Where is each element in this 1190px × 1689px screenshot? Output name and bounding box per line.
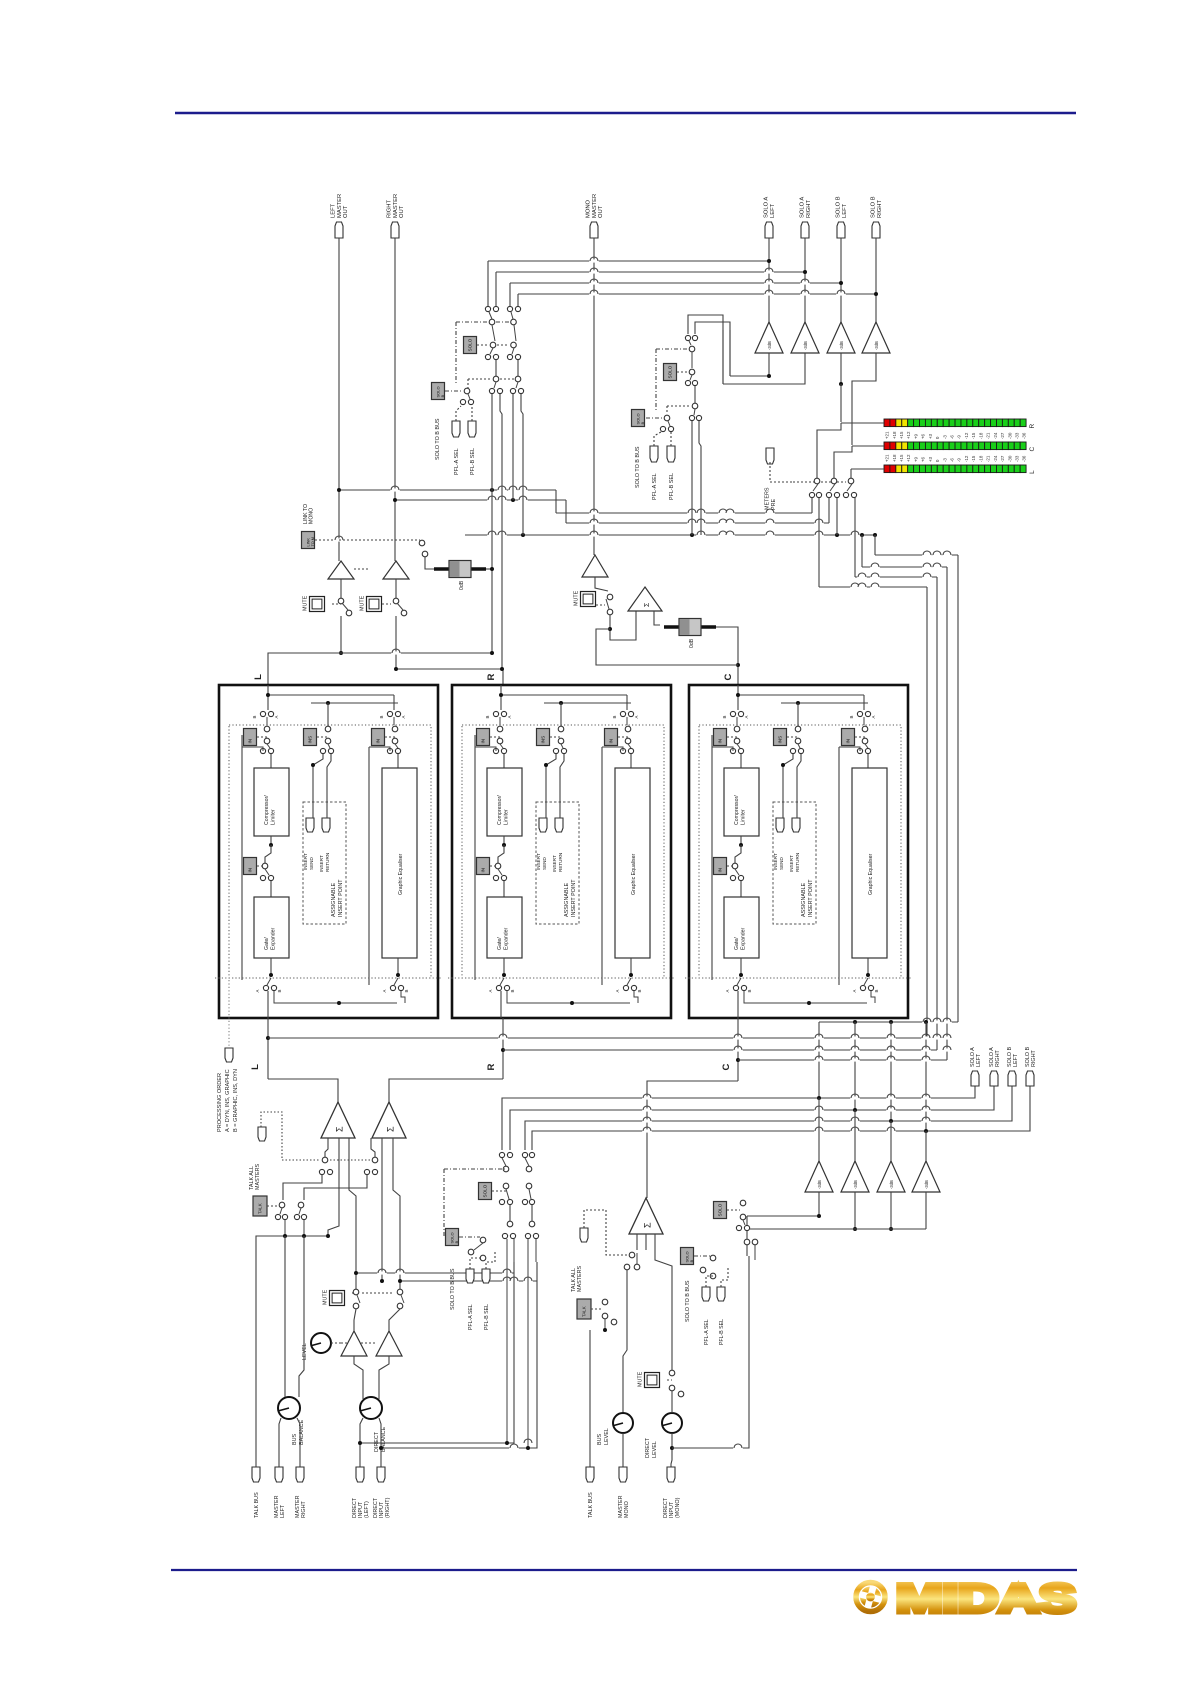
svg-text:-9: -9 <box>957 458 962 462</box>
svg-text:SOLO B: SOLO B <box>836 196 842 218</box>
svg-text:RIGHT: RIGHT <box>806 200 812 218</box>
svg-text:RIGHT: RIGHT <box>387 200 393 218</box>
svg-text:RETURN: RETURN <box>558 853 563 872</box>
svg-text:MUTE: MUTE <box>360 595 366 611</box>
svg-text:PFL-A SEL: PFL-A SEL <box>468 1304 474 1330</box>
svg-text:-6: -6 <box>950 458 955 462</box>
svg-text:A: A <box>744 715 749 718</box>
svg-text:INS: INS <box>308 736 313 744</box>
svg-text:PFL-A SEL: PFL-A SEL <box>454 448 460 475</box>
svg-text:SOLO: SOLO <box>668 365 673 378</box>
svg-text:BUS: BUS <box>597 1434 603 1445</box>
svg-text:LEFT: LEFT <box>331 203 337 218</box>
svg-text:A: A <box>382 989 387 992</box>
svg-text:LEVEL: LEVEL <box>604 1428 610 1445</box>
svg-text:MUTE: MUTE <box>303 595 309 611</box>
svg-text:-12: -12 <box>964 455 969 462</box>
svg-text:SEND: SEND <box>542 857 547 870</box>
svg-text:A: A <box>255 989 260 992</box>
svg-text:Graphic Equaliser: Graphic Equaliser <box>398 853 404 895</box>
svg-text:INSERT POINT: INSERT POINT <box>571 879 577 917</box>
svg-text:SEND: SEND <box>309 857 314 870</box>
svg-text:L: L <box>1029 470 1036 474</box>
svg-text:PFL-A SEL: PFL-A SEL <box>704 1319 710 1345</box>
svg-text:-3dB: -3dB <box>767 341 772 350</box>
svg-text:INSERT: INSERT <box>552 855 557 872</box>
svg-text:Gate/: Gate/ <box>264 937 270 950</box>
svg-text:MUTE: MUTE <box>323 1289 329 1305</box>
svg-text:Expander: Expander <box>741 928 747 950</box>
svg-text:Gate/: Gate/ <box>734 937 740 950</box>
svg-text:-3dB: -3dB <box>839 341 844 350</box>
svg-text:-36: -36 <box>1022 432 1027 439</box>
svg-text:IN: IN <box>481 739 486 744</box>
svg-text:A: A <box>507 715 512 718</box>
svg-text:RETURN: RETURN <box>795 853 800 872</box>
svg-text:INSERT: INSERT <box>773 853 778 870</box>
svg-text:-3dB: -3dB <box>924 1180 929 1189</box>
svg-text:-27: -27 <box>1000 455 1005 462</box>
svg-text:MIDAS: MIDAS <box>896 1577 1076 1621</box>
svg-text:A: A <box>871 715 876 718</box>
svg-text:-18: -18 <box>978 455 983 462</box>
svg-text:INSERT POINT: INSERT POINT <box>808 879 814 917</box>
svg-text:+12: +12 <box>906 454 911 462</box>
svg-text:LEVEL: LEVEL <box>302 1343 308 1360</box>
svg-text:B: B <box>747 989 752 992</box>
svg-text:B: B <box>637 989 642 992</box>
svg-text:A: A <box>852 989 857 992</box>
svg-text:RIGHT: RIGHT <box>301 1501 307 1518</box>
svg-text:-12: -12 <box>964 432 969 439</box>
svg-text:-3dB: -3dB <box>853 1180 858 1189</box>
svg-text:SOLO TO B BUS: SOLO TO B BUS <box>635 446 641 488</box>
svg-text:ASSIGNABLE: ASSIGNABLE <box>564 882 570 917</box>
svg-text:Limiter: Limiter <box>504 809 510 825</box>
svg-text:A: A <box>725 989 730 992</box>
svg-text:Compressor/: Compressor/ <box>497 795 503 825</box>
svg-text:-24: -24 <box>993 455 998 462</box>
svg-text:OUT: OUT <box>598 205 604 218</box>
svg-text:SOLO: SOLO <box>468 338 473 351</box>
svg-text:+3: +3 <box>928 433 933 439</box>
svg-text:A = DYN, INS, GRAPHIC: A = DYN, INS, GRAPHIC <box>225 1069 231 1132</box>
svg-text:+12: +12 <box>906 431 911 439</box>
svg-text:+18: +18 <box>892 431 897 439</box>
svg-text:OUT: OUT <box>399 205 405 218</box>
svg-text:MONO: MONO <box>624 1501 630 1518</box>
svg-text:R: R <box>486 673 497 680</box>
svg-text:INSERT POINT: INSERT POINT <box>338 879 344 917</box>
svg-text:A: A <box>634 715 639 718</box>
svg-text:RIGHT: RIGHT <box>1031 1050 1037 1067</box>
svg-text:INSERT: INSERT <box>789 855 794 872</box>
svg-text:MASTER: MASTER <box>592 194 598 218</box>
svg-text:+6: +6 <box>921 433 926 439</box>
svg-text:METERS: METERS <box>765 487 771 510</box>
svg-text:Limiter: Limiter <box>741 809 747 825</box>
svg-text:Graphic Equaliser: Graphic Equaliser <box>631 853 637 895</box>
svg-text:TALK: TALK <box>258 1203 263 1214</box>
svg-text:-27: -27 <box>1000 432 1005 439</box>
svg-text:B: B <box>485 715 490 718</box>
svg-text:R: R <box>1029 423 1036 428</box>
svg-text:+18: +18 <box>892 454 897 462</box>
svg-text:-3: -3 <box>942 458 947 462</box>
svg-text:-3dB: -3dB <box>889 1180 894 1189</box>
svg-text:INSERT: INSERT <box>303 853 308 870</box>
svg-text:OUT: OUT <box>343 205 349 218</box>
svg-text:MASTERS: MASTERS <box>577 1266 583 1292</box>
svg-text:INSERT: INSERT <box>536 853 541 870</box>
svg-text:RIGHT: RIGHT <box>877 200 883 218</box>
svg-text:IN: IN <box>248 739 253 744</box>
svg-text:Σ: Σ <box>386 1126 396 1132</box>
svg-text:LEFT: LEFT <box>280 1504 286 1518</box>
svg-text:SOLO TO B BUS: SOLO TO B BUS <box>450 1268 456 1310</box>
svg-text:0dB: 0dB <box>459 580 465 590</box>
svg-text:-21: -21 <box>986 432 991 439</box>
svg-text:IN: IN <box>248 868 253 873</box>
svg-text:PFL-B SEL: PFL-B SEL <box>484 1304 490 1330</box>
svg-text:RETURN: RETURN <box>325 853 330 872</box>
svg-text:BUS: BUS <box>292 1434 298 1445</box>
svg-text:SOLO TO B BUS: SOLO TO B BUS <box>435 418 441 460</box>
svg-text:+21: +21 <box>885 454 890 462</box>
svg-text:TALK: TALK <box>582 1306 587 1317</box>
svg-text:LEFT: LEFT <box>976 1053 982 1067</box>
svg-text:PFL-A SEL: PFL-A SEL <box>652 473 658 500</box>
svg-text:-33: -33 <box>1014 455 1019 462</box>
svg-text:IN: IN <box>481 868 486 873</box>
svg-text:IN: IN <box>718 868 723 873</box>
svg-text:-3dB: -3dB <box>874 341 879 350</box>
svg-text:B: B <box>404 989 409 992</box>
svg-text:B: B <box>612 715 617 718</box>
svg-text:TALK BUS: TALK BUS <box>588 1492 594 1518</box>
svg-text:PFL-B SEL: PFL-B SEL <box>669 473 675 500</box>
svg-text:A: A <box>274 715 279 718</box>
svg-text:-36: -36 <box>1022 455 1027 462</box>
svg-text:L: L <box>253 674 264 680</box>
svg-text:B: B <box>277 989 282 992</box>
svg-text:Compressor/: Compressor/ <box>264 795 270 825</box>
svg-text:MASTERS: MASTERS <box>255 1164 261 1190</box>
svg-text:INS: INS <box>778 736 783 744</box>
svg-text:SOLO TO B BUS: SOLO TO B BUS <box>685 1280 691 1322</box>
svg-text:DIRECT: DIRECT <box>374 1431 380 1452</box>
svg-text:-30: -30 <box>1007 455 1012 462</box>
svg-text:IN: IN <box>376 739 381 744</box>
svg-text:B: B <box>252 715 257 718</box>
svg-text:Σ: Σ <box>643 1222 653 1228</box>
svg-text:LEFT: LEFT <box>1013 1053 1019 1067</box>
svg-text:+15: +15 <box>899 431 904 439</box>
svg-text:MASTER: MASTER <box>337 194 343 218</box>
svg-text:-18: -18 <box>978 432 983 439</box>
svg-text:-9: -9 <box>957 435 962 439</box>
svg-text:+9: +9 <box>913 456 918 462</box>
svg-text:Σ: Σ <box>335 1126 345 1132</box>
svg-text:ASSIGNABLE: ASSIGNABLE <box>331 882 337 917</box>
svg-text:-15: -15 <box>971 432 976 439</box>
svg-text:-33: -33 <box>1014 432 1019 439</box>
svg-text:Graphic Equaliser: Graphic Equaliser <box>868 853 874 895</box>
svg-text:(RIGHT): (RIGHT) <box>385 1497 391 1518</box>
svg-text:(LEFT): (LEFT) <box>364 1501 370 1518</box>
svg-text:MUTE: MUTE <box>574 590 580 606</box>
svg-text:B: B <box>722 715 727 718</box>
svg-text:C: C <box>721 1063 732 1070</box>
svg-text:-3: -3 <box>942 435 947 439</box>
svg-text:LEFT: LEFT <box>842 203 848 218</box>
svg-text:PROCESSING ORDER: PROCESSING ORDER <box>217 1073 223 1132</box>
svg-text:Limiter: Limiter <box>271 809 277 825</box>
svg-text:C: C <box>1029 446 1036 451</box>
svg-text:Gate/: Gate/ <box>497 937 503 950</box>
svg-text:PRE: PRE <box>771 499 777 510</box>
svg-text:-3dB: -3dB <box>803 341 808 350</box>
svg-text:L: L <box>250 1064 261 1070</box>
svg-text:0dB: 0dB <box>689 638 695 648</box>
svg-text:B = GRAPHIC, INS, DYN: B = GRAPHIC, INS, DYN <box>233 1069 239 1132</box>
svg-text:IN: IN <box>609 739 614 744</box>
svg-text:Expander: Expander <box>504 928 510 950</box>
svg-text:B: B <box>874 989 879 992</box>
svg-text:+15: +15 <box>899 454 904 462</box>
svg-text:SOLO B: SOLO B <box>871 196 877 218</box>
svg-text:-15: -15 <box>971 455 976 462</box>
svg-text:Compressor/: Compressor/ <box>734 795 740 825</box>
svg-text:Expander: Expander <box>271 928 277 950</box>
svg-text:MONO: MONO <box>586 199 592 218</box>
svg-text:PFL-B SEL: PFL-B SEL <box>719 1319 725 1345</box>
svg-text:Σ: Σ <box>644 602 651 607</box>
svg-text:A: A <box>615 989 620 992</box>
svg-text:RIGHT: RIGHT <box>995 1050 1001 1067</box>
svg-text:-3dB: -3dB <box>817 1180 822 1189</box>
svg-text:-6: -6 <box>950 435 955 439</box>
svg-text:TALK BUS: TALK BUS <box>254 1492 260 1518</box>
svg-text:A: A <box>488 989 493 992</box>
svg-text:IN: IN <box>846 739 851 744</box>
svg-text:SEND: SEND <box>779 857 784 870</box>
svg-text:-24: -24 <box>993 432 998 439</box>
svg-text:R: R <box>486 1063 497 1070</box>
svg-text:A: A <box>401 715 406 718</box>
svg-text:-21: -21 <box>986 455 991 462</box>
svg-text:C: C <box>723 673 734 680</box>
svg-text:MUTE: MUTE <box>638 1371 644 1387</box>
svg-text:SOLO: SOLO <box>718 1203 723 1216</box>
svg-text:+9: +9 <box>913 433 918 439</box>
svg-text:SOLO A: SOLO A <box>800 197 806 218</box>
svg-text:MONO: MONO <box>309 508 315 524</box>
svg-text:B: B <box>510 989 515 992</box>
svg-text:(MONO): (MONO) <box>675 1497 681 1518</box>
svg-text:INSERT: INSERT <box>319 855 324 872</box>
svg-text:IN: IN <box>718 739 723 744</box>
svg-text:+3: +3 <box>928 456 933 462</box>
svg-text:+21: +21 <box>885 431 890 439</box>
svg-text:+6: +6 <box>921 456 926 462</box>
svg-text:PFL-B SEL: PFL-B SEL <box>470 448 476 475</box>
svg-text:INS: INS <box>541 736 546 744</box>
svg-text:B: B <box>379 715 384 718</box>
svg-text:LEVEL: LEVEL <box>652 1441 658 1458</box>
svg-text:LEFT: LEFT <box>770 203 776 218</box>
svg-text:SOLO A: SOLO A <box>764 197 770 218</box>
svg-text:SOLO: SOLO <box>483 1184 488 1197</box>
svg-text:LINKTO M: LINKTO M <box>306 537 315 546</box>
svg-text:-30: -30 <box>1007 432 1012 439</box>
svg-text:DIRECT: DIRECT <box>645 1437 651 1458</box>
svg-text:MASTER: MASTER <box>393 194 399 218</box>
svg-text:B: B <box>849 715 854 718</box>
svg-text:ASSIGNABLE: ASSIGNABLE <box>801 882 807 917</box>
